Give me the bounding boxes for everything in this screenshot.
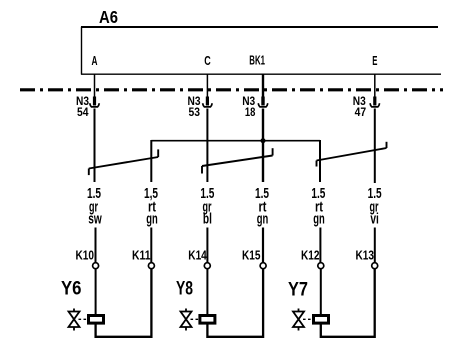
svg-text:gn: gn bbox=[257, 211, 269, 228]
wire label 1.5 gr bl bbox=[200, 185, 214, 227]
wire label 1,5 rt gn bbox=[144, 185, 158, 227]
test point K11 bbox=[148, 263, 154, 269]
wire Y6 return loop to K11 bbox=[96, 269, 152, 337]
svg-text:53: 53 bbox=[189, 105, 201, 119]
svg-text:gn: gn bbox=[146, 211, 158, 228]
wire label 1.5 rt gn (BK1) bbox=[255, 185, 269, 227]
label N3/47 bbox=[353, 94, 367, 119]
label N3/54 bbox=[76, 94, 89, 119]
svg-text:K10: K10 bbox=[76, 248, 95, 263]
wire col2 lower bbox=[150, 228, 152, 263]
svg-text:K14: K14 bbox=[188, 248, 207, 263]
wire from terminal BK1 bbox=[262, 74, 264, 97]
test point K14 bbox=[204, 263, 210, 269]
wire E to separation point 3 bbox=[374, 109, 376, 184]
svg-text:BK1: BK1 bbox=[249, 53, 265, 68]
wire label 1.5 gr vi bbox=[368, 185, 382, 227]
wire col3 lower bbox=[206, 228, 208, 263]
svg-text:C: C bbox=[204, 53, 211, 68]
separation point 3 bbox=[317, 142, 387, 167]
svg-text:A6: A6 bbox=[99, 7, 118, 27]
label N3/18 bbox=[242, 94, 255, 119]
valve symbol Y8 bbox=[181, 309, 192, 331]
wire col6 lower bbox=[374, 228, 376, 263]
test point K12 bbox=[318, 263, 324, 269]
svg-text:bl: bl bbox=[203, 211, 212, 228]
connector N3/53 bbox=[203, 97, 213, 107]
svg-text:K13: K13 bbox=[356, 248, 375, 263]
wire bus to second column bbox=[150, 140, 152, 182]
svg-text:A: A bbox=[92, 53, 98, 68]
wire C to separation point 2 bbox=[206, 109, 208, 183]
wire from terminal C bbox=[206, 74, 208, 97]
solenoid coil Y8 bbox=[200, 316, 215, 324]
wire col4 lower bbox=[262, 228, 264, 263]
svg-text:sw: sw bbox=[88, 211, 102, 228]
svg-text:K12: K12 bbox=[301, 248, 320, 263]
label N3/53 bbox=[188, 94, 201, 119]
wire col1 lower bbox=[95, 228, 97, 263]
svg-text:vi: vi bbox=[370, 211, 379, 228]
svg-text:K11: K11 bbox=[132, 248, 151, 263]
wire K14 to coil Y8 bbox=[206, 269, 208, 315]
svg-text:Y8: Y8 bbox=[176, 279, 193, 300]
separation point 1 bbox=[89, 149, 158, 175]
link Y8 (dashed) bbox=[191, 318, 199, 320]
link Y6 (dashed) bbox=[79, 318, 88, 320]
svg-text:Y7: Y7 bbox=[288, 280, 308, 301]
separation point 2 bbox=[202, 148, 273, 173]
boundary line (dash-dot) bbox=[20, 88, 443, 91]
wire col5 lower bbox=[319, 228, 321, 263]
wire bus to fifth column bbox=[319, 140, 321, 182]
svg-text:E: E bbox=[372, 53, 377, 68]
junction on BK1 wire bbox=[261, 138, 266, 143]
bus wire from BK1 junction bbox=[151, 140, 320, 142]
solenoid coil Y7 bbox=[314, 316, 329, 324]
test point K13 bbox=[372, 263, 378, 269]
svg-text:Y6: Y6 bbox=[61, 279, 82, 300]
svg-text:54: 54 bbox=[77, 105, 89, 119]
wire label 1.5 gr sw bbox=[87, 185, 102, 227]
svg-text:18: 18 bbox=[245, 105, 256, 119]
wire K10 to coil Y6 bbox=[95, 269, 97, 315]
wire A to separation point 1 bbox=[94, 109, 96, 183]
link Y7 (dashed) bbox=[303, 318, 312, 320]
wire from terminal E bbox=[374, 74, 376, 97]
connector N3/18 bbox=[258, 97, 268, 107]
test point K15 bbox=[260, 263, 266, 269]
wire K12 to coil Y7 bbox=[320, 269, 322, 315]
valve symbol Y7 bbox=[293, 309, 304, 331]
svg-text:47: 47 bbox=[355, 105, 367, 119]
wire from terminal A bbox=[94, 74, 96, 97]
svg-text:gn: gn bbox=[313, 211, 325, 228]
valve symbol Y6 bbox=[69, 309, 80, 331]
connector N3/54 bbox=[90, 97, 100, 107]
svg-text:K15: K15 bbox=[242, 248, 261, 263]
wire BK1 down through junction bbox=[262, 109, 264, 183]
control unit A6 box bbox=[81, 27, 441, 75]
wire Y8 return loop to K15 bbox=[207, 269, 263, 337]
wire label 1.5 rt gn (col5) bbox=[311, 185, 325, 227]
solenoid coil Y6 bbox=[89, 316, 104, 324]
connector N3/47 bbox=[370, 97, 380, 107]
wire Y7 return loop to K13 bbox=[321, 269, 375, 337]
test point K10 bbox=[93, 263, 99, 269]
